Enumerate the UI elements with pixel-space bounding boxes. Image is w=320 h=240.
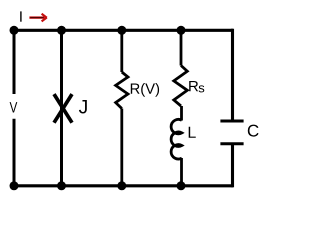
capacitor C top plate [220, 120, 243, 123]
capacitor C bottom plate [220, 142, 243, 145]
junction dot top-left [10, 26, 19, 35]
bottom wire [14, 184, 233, 187]
junction dot bottom J branch [57, 181, 66, 190]
label J [79, 100, 87, 113]
current direction arrow (red) [29, 14, 46, 22]
wire: lead between Rs and L [180, 106, 183, 121]
label C [248, 125, 259, 137]
label v (junction voltage) [10, 102, 18, 112]
resistor Rs zigzag [174, 66, 188, 107]
junction dot top J branch [57, 26, 66, 35]
wire: R(V) branch upper lead [120, 30, 123, 72]
wire: right branch lower segment [231, 144, 234, 188]
label R(V) [131, 83, 159, 97]
top wire [14, 29, 233, 32]
wire: source branch upper segment [13, 29, 16, 94]
junction dot bottom Rs branch [177, 181, 186, 190]
label Rs [189, 81, 198, 91]
wire: lead below L [180, 158, 183, 186]
junction dot top R(V) branch [117, 26, 126, 35]
label I (bias current) [20, 11, 21, 21]
junction dot bottom R(V) branch [117, 181, 126, 190]
junction dot top Rs branch [177, 26, 186, 35]
wire: Josephson junction branch [60, 30, 63, 186]
Josephson junction J (X symbol) [54, 94, 72, 123]
label Rs subscript s [199, 85, 205, 92]
inductor L (3 loops) [171, 119, 182, 159]
wire: Rs branch upper lead [180, 30, 183, 65]
resistor R(V) zigzag [116, 72, 128, 109]
wire: source branch lower segment [13, 119, 16, 188]
label L [189, 127, 196, 138]
wire: right branch upper segment [231, 29, 234, 121]
wire: R(V) branch lower lead [120, 109, 123, 186]
junction dot bottom-left [10, 181, 19, 190]
